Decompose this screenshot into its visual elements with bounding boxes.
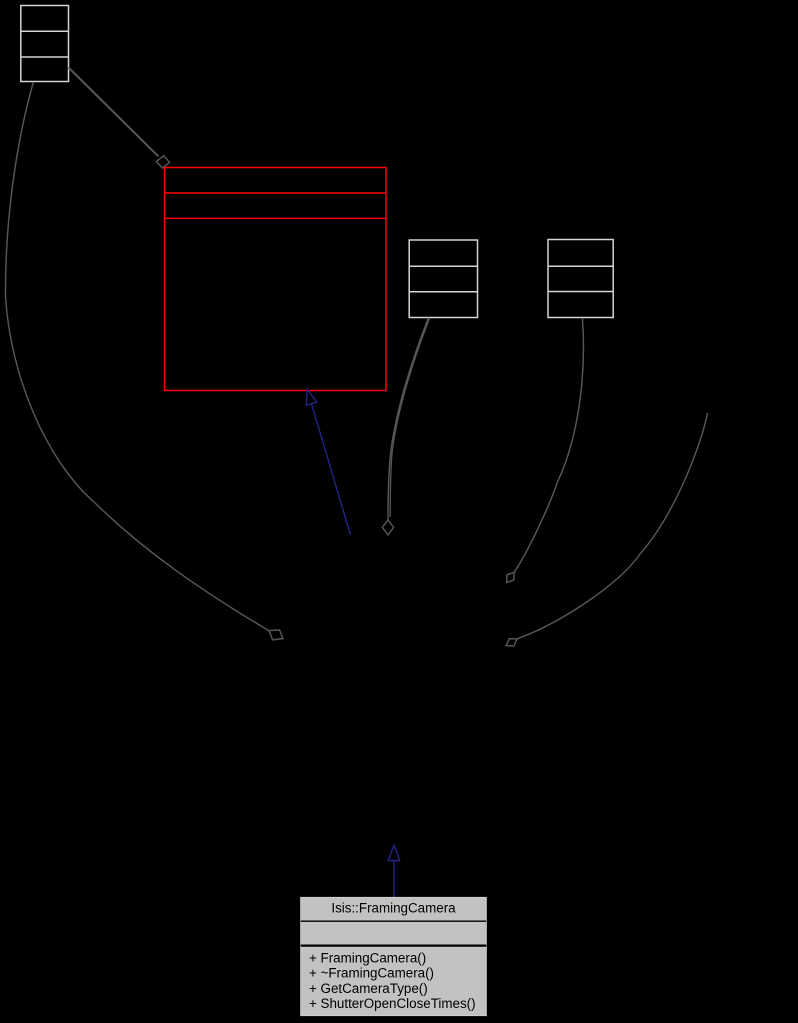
- svg-text:+ GetCameraType(): + GetCameraType(): [309, 981, 428, 996]
- svg-text:Isis::FramingCamera: Isis::FramingCamera: [331, 901, 456, 916]
- wire: aggregation edge from box C down to center node right edge: [514, 318, 583, 572]
- wire: aggregation edge from hidden top-right node to center node: [517, 413, 708, 639]
- open diamond at center node upper-right edge: [507, 572, 514, 582]
- wire: long aggregation edge from box A down the left side to center node: [5, 82, 269, 631]
- svg-text:+ ShutterOpenCloseTimes(): + ShutterOpenCloseTimes(): [309, 996, 476, 1011]
- class box C (middle-right, empty 3-row node): [548, 240, 613, 318]
- svg-text:+ ~FramingCamera(): + ~FramingCamera(): [309, 966, 434, 981]
- hollow inheritance arrowhead at center node bottom: [388, 845, 399, 861]
- wire: aggregation edge from box B down to center node top: [388, 318, 429, 520]
- open diamond at red box top-left: [156, 156, 169, 168]
- open diamond at center node left edge: [269, 630, 283, 640]
- wire: second parallel aggregation edge from box B: [390, 318, 429, 517]
- wire: aggregation edge from box A to red box corner: [69, 68, 159, 157]
- svg-text:+ FramingCamera(): + FramingCamera(): [309, 951, 426, 966]
- red class box (truncated-graph node): [165, 168, 387, 391]
- wire: inheritance edge from Isis::FramingCamera up to center node: [393, 861, 395, 899]
- open diamond at center node top edge: [382, 520, 393, 535]
- hollow inheritance arrowhead at red box bottom: [306, 389, 317, 405]
- class box Isis::FramingCamera (current node, grey filled): [301, 897, 487, 1015]
- open diamond at center node lower-right edge: [506, 639, 517, 646]
- class box B (middle-left, empty 3-row node): [409, 240, 477, 318]
- class box A (top-left, empty 3-row node): [21, 6, 69, 82]
- wire: inheritance edge from center node up to red box: [312, 404, 351, 535]
